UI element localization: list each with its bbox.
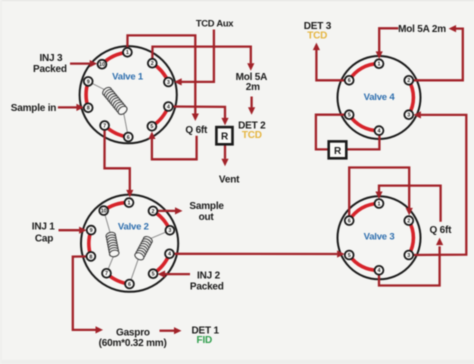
- svg-text:INJ 3: INJ 3: [39, 53, 63, 64]
- tube V2 port8 to Gaspro: [73, 256, 96, 330]
- svg-text:4: 4: [378, 129, 381, 135]
- restrictor R2 box: [329, 141, 347, 158]
- tube V4 port5 to restrictor R2: [316, 115, 349, 150]
- arrow into Q 6ft label: [192, 114, 199, 122]
- tube V4 port6 to DET 3: [316, 50, 349, 80]
- port V1-3: [164, 78, 173, 87]
- svg-text:8: 8: [89, 254, 92, 260]
- V2 left loop line port10-port7: [104, 211, 115, 274]
- arrow into V2 port1: [126, 190, 133, 198]
- tube Q 6ft (lower) to V1 port5: [152, 136, 197, 160]
- svg-text:1: 1: [378, 62, 381, 68]
- port V1-5: [148, 122, 157, 131]
- arrow Sample in into V1 port8: [58, 106, 77, 108]
- svg-text:3: 3: [167, 80, 170, 86]
- svg-text:3: 3: [407, 253, 410, 259]
- svg-text:6: 6: [348, 219, 351, 225]
- tube V1 port7 down to V2 port1: [105, 126, 130, 191]
- port V4-6: [345, 76, 354, 85]
- port V1-8: [84, 103, 93, 112]
- port V2-2: [149, 207, 158, 216]
- tube Q 6ft (right, upper) to V3 port1: [379, 186, 441, 222]
- tube Mol 5A 2m (center) to DET 2: [250, 97, 252, 108]
- restrictor R1 box: [216, 127, 232, 144]
- svg-text:3: 3: [168, 228, 171, 234]
- arrow INJ 2 Packed into V2 port5: [165, 273, 190, 275]
- svg-text:Valve 3: Valve 3: [364, 232, 395, 243]
- svg-text:R: R: [221, 132, 229, 143]
- arrow into V3 port5: [337, 250, 345, 257]
- port V2-10: [99, 206, 108, 215]
- port V2-3: [166, 226, 175, 235]
- valve V3 rotor arc port4-port5: [349, 255, 379, 270]
- valve V1 rotor arc port6-port7: [105, 126, 129, 138]
- arrow into V1 port3: [174, 78, 182, 85]
- svg-text:3: 3: [407, 113, 410, 119]
- V1 sample loop line port9-port6: [88, 81, 128, 137]
- tube V1 port4 to restrictor R1: [168, 107, 225, 119]
- svg-text:10: 10: [99, 62, 105, 68]
- svg-text:Gaspro: Gaspro: [116, 327, 150, 338]
- tube V3 port4 to Q 6ft column (right, lower): [379, 246, 440, 285]
- tube V4 port2 up to Mol 5A 2m (top right): [409, 29, 463, 81]
- port V2-6: [125, 280, 134, 289]
- valve V2 rotor arc port2-port3: [153, 211, 170, 230]
- svg-text:5: 5: [152, 272, 155, 278]
- svg-text:1: 1: [126, 50, 129, 56]
- port V1-10: [98, 60, 107, 69]
- valve V1 rotor arc port8-port9: [86, 81, 88, 107]
- svg-text:10: 10: [101, 209, 107, 215]
- svg-text:2: 2: [152, 209, 155, 215]
- svg-text:R: R: [334, 146, 342, 157]
- arrow into R1: [221, 118, 228, 126]
- port V4-5: [345, 110, 354, 119]
- arrow into Mol 5A 2m text: [449, 25, 457, 32]
- svg-text:Packed: Packed: [190, 282, 224, 293]
- svg-text:5: 5: [150, 124, 153, 130]
- valve V4 rotor arc port2-port3: [409, 80, 414, 114]
- svg-text:4: 4: [167, 104, 170, 110]
- tube V1 port2 to Mol 5A 2m column (center): [152, 47, 251, 64]
- arrow to Gaspro: [96, 326, 104, 333]
- svg-text:5: 5: [348, 113, 351, 119]
- svg-text:Valve 4: Valve 4: [364, 92, 396, 103]
- svg-text:Vent: Vent: [219, 175, 240, 186]
- arrow into V1 port5: [148, 132, 155, 140]
- port V3-6: [345, 216, 354, 225]
- arrow Gaspro to DET 1: [160, 330, 175, 332]
- valve V2 rotor arc port4-port5: [153, 254, 169, 274]
- svg-text:2m: 2m: [246, 82, 260, 93]
- arrow into V3 port1: [375, 192, 382, 200]
- svg-text:TCD: TCD: [242, 130, 262, 141]
- svg-text:Q 6ft: Q 6ft: [185, 125, 208, 136]
- svg-text:1: 1: [128, 201, 131, 207]
- V2 right loop coil: [134, 235, 154, 261]
- valve V2 rotor arc port10-port1: [104, 203, 129, 211]
- valve V3 rotor arc port6-port1: [349, 203, 379, 220]
- port V3-5: [345, 251, 354, 260]
- V2 right loop line port3-port6: [130, 230, 171, 284]
- svg-text:Valve 1: Valve 1: [112, 71, 144, 82]
- V2 left loop coil: [105, 232, 119, 258]
- port V4-1: [375, 59, 384, 68]
- port V2-8: [87, 252, 96, 261]
- valve V4 body: [338, 56, 421, 139]
- port V1-7: [100, 121, 109, 130]
- svg-text:6: 6: [127, 135, 130, 141]
- valve V1 rotor arc port4-port5: [152, 107, 169, 127]
- arrow into V4 port3: [413, 111, 421, 118]
- arrow to Vent: [221, 159, 228, 167]
- svg-text:Mol 5A 2m: Mol 5A 2m: [398, 24, 446, 35]
- svg-text:2: 2: [407, 78, 410, 84]
- arrow into V4 port1: [376, 51, 383, 59]
- tube R2 to V4 port4: [346, 135, 379, 149]
- svg-text:TCD: TCD: [307, 30, 327, 41]
- port V1-2: [148, 59, 157, 68]
- port V3-2: [404, 216, 413, 225]
- svg-text:TCD Aux: TCD Aux: [196, 17, 234, 28]
- valve V4 rotor arc port4-port5: [349, 115, 379, 131]
- svg-text:4: 4: [168, 252, 171, 258]
- svg-text:9: 9: [90, 228, 93, 234]
- tube V1 port1 up-right-down to Q 6ft (upper): [127, 35, 195, 113]
- valve V3 rotor arc port2-port3: [409, 221, 414, 255]
- port V3-3: [404, 251, 413, 260]
- svg-text:7: 7: [103, 123, 106, 129]
- port V3-4: [375, 266, 384, 275]
- port V1-1: [123, 48, 132, 57]
- svg-text:4: 4: [378, 268, 381, 274]
- svg-text:6: 6: [128, 282, 131, 288]
- svg-text:5: 5: [348, 253, 351, 259]
- arrow into DET 2: [248, 107, 255, 115]
- valve V1 body: [80, 46, 177, 143]
- svg-text:Q 6ft: Q 6ft: [430, 225, 453, 236]
- arrow to Sample out: [175, 207, 183, 214]
- V1 sample loop coil: [101, 86, 129, 116]
- tube V2 port2 to Sample out: [153, 210, 175, 212]
- valve V1 rotor arc port10-port1: [102, 52, 127, 64]
- svg-text:Sample in: Sample in: [11, 103, 57, 114]
- svg-text:Packed: Packed: [33, 64, 67, 75]
- svg-text:(60m*0.32 mm): (60m*0.32 mm): [99, 338, 167, 349]
- tube V2 port4 to V3 port5: [170, 253, 338, 255]
- valve V4 rotor arc port6-port1: [349, 64, 379, 81]
- port V4-2: [404, 76, 413, 85]
- svg-text:Cap: Cap: [35, 233, 53, 244]
- svg-text:6: 6: [348, 78, 351, 84]
- svg-text:2: 2: [151, 61, 154, 67]
- tube V3 port6 loop to V3 port2: [349, 168, 409, 221]
- arrow INJ 3 Packed into V1 port10: [70, 62, 90, 64]
- svg-text:2: 2: [407, 219, 410, 225]
- port V2-7: [102, 269, 111, 278]
- valve V3 body: [338, 196, 421, 279]
- arrow to DET 3 TCD: [313, 43, 320, 51]
- arrow up into Q 6ft label (right): [436, 238, 443, 246]
- arrow into V3 port2: [406, 208, 413, 216]
- arrow INJ 1 Cap into V2 port9: [59, 229, 80, 231]
- port V4-4: [375, 126, 384, 135]
- svg-text:FID: FID: [197, 335, 213, 346]
- port V2-5: [149, 269, 158, 278]
- svg-text:1: 1: [378, 201, 381, 207]
- svg-text:INJ 2: INJ 2: [197, 270, 221, 281]
- tube Mol 5A 2m (top) down to V4 port1: [379, 28, 398, 51]
- valve V2 body: [81, 195, 178, 292]
- valve V2 rotor arc port8-port9: [89, 230, 91, 256]
- port V1-6: [124, 133, 133, 142]
- arrow into Mol 5A 2m (center): [247, 63, 254, 70]
- svg-text:Valve 2: Valve 2: [118, 221, 149, 232]
- port V4-3: [404, 110, 413, 119]
- port V3-1: [375, 199, 384, 208]
- port V2-4: [165, 249, 174, 258]
- svg-text:out: out: [199, 212, 215, 223]
- port V1-9: [84, 77, 93, 86]
- svg-text:9: 9: [87, 79, 90, 85]
- valve V1 rotor arc port2-port3: [152, 63, 168, 82]
- port V1-4: [164, 102, 173, 111]
- svg-text:INJ 1: INJ 1: [32, 221, 56, 232]
- port V2-9: [87, 226, 96, 235]
- svg-text:8: 8: [87, 106, 90, 112]
- svg-text:7: 7: [105, 271, 108, 277]
- svg-text:Sample: Sample: [189, 201, 224, 212]
- tube R1 to Vent: [224, 145, 226, 159]
- tube TCD Aux to V1 port3: [181, 30, 214, 82]
- valve V2 rotor arc port6-port7: [107, 273, 130, 284]
- port V2-1: [125, 198, 134, 207]
- tube V3 port3 up to V4 port3: [409, 115, 467, 255]
